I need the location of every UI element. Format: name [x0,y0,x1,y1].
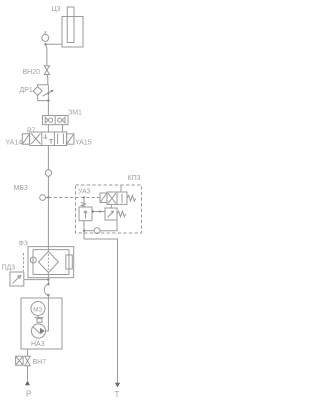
main relief element [79,207,92,221]
node dot at ПД3 tap [47,278,49,280]
gauge circle on line [45,170,51,176]
label Р7 [27,128,36,135]
node dot at pilot feed [83,196,85,198]
label Ц3 [52,6,61,13]
spring above main element [81,203,86,208]
throttle ДР1 branch [33,85,48,101]
suction arrow Р [25,381,30,386]
filter element diamond [38,252,58,273]
label ДР1 [20,87,33,94]
pump НА3 [31,324,45,338]
label МБ3 [14,185,28,192]
svg-text:ВН20: ВН20 [23,69,41,76]
wire main down to filter [47,198,49,252]
wire circle to right riser [100,220,117,231]
svg-text:Р: Р [26,390,31,399]
label YA15 [75,140,92,147]
node junction to relief block [47,196,49,198]
label ПД3 [2,265,16,272]
wire to ЗМ1 [47,101,49,116]
label Т [115,390,120,399]
spring of pilot element [117,211,126,217]
svg-text:Т: Т [115,390,120,399]
wire drain elbow to tank line [84,239,118,383]
wire to branch junction [47,176,49,197]
motor М3 [31,302,45,316]
filter assembly Ф3 box [28,247,74,278]
bypass valve rect [66,255,73,269]
wire dashed branch to КП3 block [48,197,100,199]
label ВН20 [23,69,41,76]
solenoid YA15 [67,134,74,144]
wire ЗМ1 port B to Р7 [62,125,64,132]
unload valve УА3 [107,192,127,204]
wire dashed indicator line [23,253,25,271]
svg-text:ЗМ1: ЗМ1 [68,110,82,117]
label УА3 [78,189,91,196]
svg-text:ПД3: ПД3 [2,265,16,272]
valve ВН7 [25,356,31,365]
pilot check valve ЗМ1 [43,116,69,125]
drain plug square [16,356,24,365]
svg-text:Ц3: Ц3 [52,6,61,13]
wire hose to pump [47,295,49,331]
node dot drain left [83,230,85,232]
svg-text:ДР1: ДР1 [20,87,33,94]
label Р [26,390,31,399]
solenoid of УА3 [100,193,107,203]
wire Р7 to МБ3 [47,146,49,170]
wire drain left riser [83,221,85,239]
svg-text:УА3: УА3 [78,189,91,196]
coupling [35,316,44,323]
pilot relief element [105,208,117,220]
wire suction below box [27,349,29,356]
pressure switch ПД3 [10,272,24,286]
svg-text:YA15: YA15 [75,140,92,147]
wire pump outlet [46,330,49,332]
wire УА3 top port [120,185,122,192]
label ЗМ1 [68,110,82,117]
node dot connector left [92,210,94,212]
svg-text:М3: М3 [33,306,42,313]
label КП3 [128,175,141,182]
wire ВН7 to tank [27,366,29,381]
valve ВН20 [44,66,49,75]
spring of УА3 [127,195,136,201]
tank arrow Т [115,383,120,388]
wire filter to hose [47,273,49,285]
wire УА3 to pilot element [110,204,112,208]
svg-text:YA14: YA14 [6,140,23,147]
wire ВН20 to throttle branch [46,75,49,85]
svg-text:КП3: КП3 [128,175,141,182]
wire cylinder port [46,43,63,45]
relief block boundary КП3 [76,185,142,233]
wire main straight segment [47,85,49,101]
pump unit box [21,298,62,349]
wire vent to ВН20 [46,44,47,65]
node junction below vent [44,43,46,45]
clog indicator circle [30,257,36,263]
solenoid YA14 [22,134,29,144]
wire mid connector [92,210,105,213]
wire ПД3 to main [24,279,49,281]
node dot on main segment [47,92,49,94]
wire drain horizontal to circle [84,230,94,232]
wire ЗМ1 port A to Р7 [47,125,49,132]
orifice circle [94,228,100,234]
svg-text:ВН7: ВН7 [33,359,47,366]
throttle adjust arrow [43,90,54,97]
label НА3 [31,341,45,348]
wire pilot feed down [83,198,85,208]
svg-text:НА3: НА3 [31,341,45,348]
node junction at rejoin [47,99,49,101]
filter internal loop [33,250,69,275]
gauge point МБ3 [40,195,46,201]
cylinder Ц3 [62,7,83,47]
label Ф3 [19,241,28,248]
directional valve Р7 [30,132,67,146]
label YA14 [6,140,23,147]
svg-text:МБ3: МБ3 [14,185,28,192]
label ВН7 [33,359,47,366]
hose flexible connection [44,283,49,296]
vent valve on cylinder line [42,31,49,41]
svg-text:Ф3: Ф3 [19,241,28,248]
